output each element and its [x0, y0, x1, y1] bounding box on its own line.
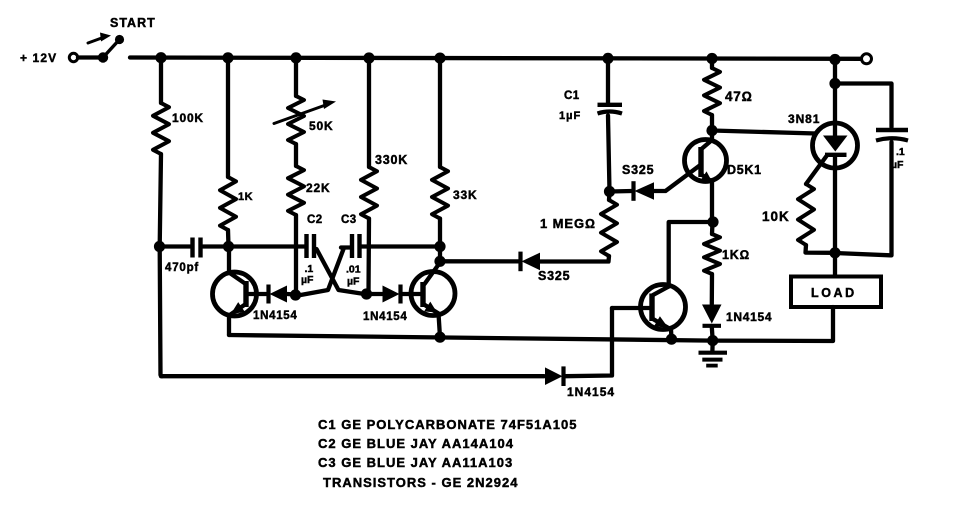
- svg-text:C1 GE POLYCARBONATE 74F51A105: C1 GE POLYCARBONATE 74F51A105: [318, 417, 577, 432]
- label START: [110, 16, 156, 30]
- SCR 3N81: [813, 123, 858, 168]
- label 1 MEG ohm: [540, 216, 596, 231]
- wire C1 to 1MEG node: [608, 116, 610, 192]
- wire rail to 33K: [438, 58, 442, 167]
- diode S325 (upper): [610, 181, 655, 201]
- wire J13 to .1uF cap: [835, 84, 892, 128]
- label 1N4154 (vertical diode): [726, 310, 772, 324]
- svg-text:47Ω: 47Ω: [725, 89, 753, 104]
- junction node J1 (100K / 470pF / down-wire): [154, 241, 165, 252]
- wire rail to 1K: [226, 58, 230, 177]
- wire top +12V supply rail: [130, 58, 861, 59]
- wire emitter rail Q1-Q2-Q3: [229, 335, 713, 341]
- junction node J8 (Q3 emitter): [666, 334, 677, 345]
- label S325 (lower): [538, 269, 570, 283]
- junction node J9 (ground node): [707, 335, 718, 346]
- wire 50K to 22K: [294, 144, 298, 166]
- svg-text:TRANSISTORS - GE 2N2924: TRANSISTORS - GE 2N2924: [323, 475, 518, 490]
- potentiometer 50K: [288, 96, 304, 144]
- svg-text:C2: C2: [307, 214, 323, 226]
- svg-text:330K: 330K: [375, 153, 408, 167]
- potentiometer arrow: [274, 100, 336, 124]
- svg-text:C3 GE BLUE JAY AA11A103: C3 GE BLUE JAY AA11A103: [318, 455, 513, 470]
- load box: [791, 277, 881, 308]
- label D5K1: [727, 163, 762, 177]
- resistor 33K: [432, 167, 448, 219]
- label 10K: [762, 209, 790, 224]
- transistor Q1 (2N2924): [213, 247, 257, 336]
- resistor 1K: [220, 177, 236, 230]
- label C2 value uF: [301, 274, 314, 286]
- wire SCR cathode to 10K: [806, 156, 827, 184]
- svg-text:22K: 22K: [306, 181, 330, 195]
- label 330K: [375, 153, 408, 167]
- switch START lever arm: [103, 40, 119, 58]
- svg-text:S325: S325: [538, 269, 570, 283]
- wire .1uF return to J14: [835, 142, 892, 255]
- wire S325 to D5K1 base: [654, 165, 701, 192]
- wire C3 left plate stub to cross-coupling: [341, 245, 351, 249]
- svg-text:1µF: 1µF: [559, 110, 581, 122]
- wire 1MEG bottom to S325 anode: [540, 256, 609, 262]
- note transistors: [323, 475, 518, 490]
- junction node D (330K branch): [363, 52, 374, 63]
- wire 33K to Q2 collector rail: [438, 219, 442, 247]
- terminal +12V input (open circle, left end): [69, 53, 77, 61]
- diode S325 (lower): [440, 252, 540, 272]
- svg-text:µF: µF: [301, 274, 314, 286]
- wire 1K to collector rail: [226, 230, 231, 247]
- transistor Q3 (2N2924): [641, 285, 686, 340]
- label 22K: [306, 181, 330, 195]
- terminal +12V output (open circle, right end): [862, 54, 872, 64]
- switch actuation arrow: [88, 33, 111, 44]
- wire J14 to LOAD: [833, 253, 837, 276]
- wire rail to C1: [606, 58, 610, 103]
- junction node J3 (33K / collector rail): [434, 241, 445, 252]
- junction node J13 (SCR anode / .1uF top): [829, 78, 840, 89]
- junction node J14 (SCR cathode / 10K / .1uF / LOAD): [829, 247, 840, 258]
- junction node C (50K branch): [290, 52, 301, 63]
- label 1N4154 (Q1 base diode): [253, 310, 297, 322]
- resistor 1MEG: [601, 200, 617, 256]
- junction node E (33K branch): [434, 53, 445, 64]
- resistor 47ohm: [704, 68, 720, 115]
- ground: [699, 341, 728, 366]
- svg-text:+ 12V: + 12V: [20, 51, 57, 65]
- resistor 1Kohm: [704, 234, 720, 274]
- svg-text:C1: C1: [564, 90, 580, 102]
- wire 330K down to Q2 base node (crosses collector rail): [366, 219, 371, 295]
- label 1K ohm: [722, 248, 750, 262]
- wire cross-coupling C3 left plate to Q1 base node: [297, 249, 344, 296]
- label C3: [341, 214, 357, 226]
- label LOAD: [811, 286, 857, 300]
- label C1 value: [559, 110, 581, 122]
- junction node J11 (47ohm / D5K1 collector / SCR gate): [706, 125, 717, 136]
- diode 1N4154 (vertical): [702, 305, 722, 326]
- wire J11 to SCR gate: [712, 131, 816, 134]
- diode 1N4154 (Q2 base): [367, 285, 424, 304]
- junction node J4 (Q2 collector / S325): [434, 256, 445, 267]
- junction node J12 (D5K1 emitter / 1K / Q3 collector): [707, 216, 718, 227]
- label C2 value .1: [305, 263, 314, 275]
- wire J3 to Q2 collector node: [438, 247, 442, 262]
- label 33K: [453, 188, 477, 202]
- wire diode to ground node: [710, 327, 715, 341]
- wire J12 to 1Kohm: [710, 222, 715, 234]
- label 100K: [172, 111, 204, 125]
- resistor 330K: [361, 167, 377, 219]
- svg-text:1N4154: 1N4154: [253, 310, 297, 322]
- wire bottom rail from J1 branch to diode: [161, 374, 544, 378]
- resistor 22K: [288, 166, 304, 215]
- junction node J5 (Q1 base): [290, 289, 301, 300]
- wire LOAD return to J9: [713, 307, 833, 341]
- diode 1N4154 (Q1 base): [246, 285, 296, 304]
- wire J1 to 470pF: [160, 244, 191, 248]
- svg-text:33K: 33K: [453, 188, 477, 202]
- label 470pf: [165, 262, 199, 274]
- svg-text:C2 GE BLUE JAY AA14A104: C2 GE BLUE JAY AA14A104: [318, 436, 514, 451]
- label .1 (right cap): [896, 146, 905, 158]
- note C3: [318, 455, 513, 470]
- wire diode to Q3 base riser: [565, 308, 612, 376]
- wire 10K to J14: [806, 245, 836, 253]
- wire rail to 330K: [367, 58, 371, 167]
- note C2: [318, 436, 514, 451]
- label C2: [307, 214, 323, 226]
- junction node J10 (C1 / 1MEG / S325): [604, 186, 615, 197]
- svg-text:1N4154: 1N4154: [363, 311, 407, 323]
- transistor Q2 (2N2924): [411, 263, 455, 338]
- svg-text:D5K1: D5K1: [727, 163, 762, 177]
- capacitor .1uF: [876, 130, 908, 141]
- svg-text:3N81: 3N81: [788, 112, 820, 126]
- note C1: [318, 417, 577, 432]
- svg-text:µF: µF: [347, 276, 360, 288]
- label 3N81: [788, 112, 820, 126]
- wire 470pF to J2: [203, 244, 229, 248]
- wire from +12V terminal to switch pole: [78, 55, 99, 59]
- label S325 (upper): [622, 163, 654, 177]
- junction node J6 (Q2 base): [361, 288, 372, 299]
- wire rail to SCR anode branch: [833, 59, 837, 137]
- wire J12 left to Q3 collector riser: [669, 222, 713, 287]
- svg-text:START: START: [110, 16, 156, 30]
- wire SCR cathode down to J14: [833, 157, 837, 253]
- capacitor 470pF: [193, 238, 201, 258]
- label 1N4154 (Q2 base diode): [363, 311, 407, 323]
- junction node B (1K branch): [222, 52, 233, 63]
- transistor D5K1: [685, 131, 727, 223]
- wire rail to 100K: [159, 58, 163, 103]
- junction node H (SCR anode branch): [829, 54, 840, 65]
- wire cross-coupling C2 right plate to Q2 base node: [317, 249, 367, 294]
- svg-text:470pf: 470pf: [165, 262, 199, 274]
- label 1K: [238, 191, 253, 203]
- wire Q3 base lead: [612, 306, 652, 310]
- label C3 value .01: [346, 264, 361, 276]
- label C1: [564, 90, 580, 102]
- resistor 100K: [153, 103, 169, 154]
- svg-text:C3: C3: [341, 214, 357, 226]
- capacitor C2: [307, 234, 315, 258]
- svg-text:100K: 100K: [172, 111, 204, 125]
- junction node A (100K branch): [155, 52, 166, 63]
- wire rail to 47ohm: [710, 58, 714, 68]
- svg-text:10K: 10K: [762, 209, 790, 224]
- wire 22K down to Q1 base node (crosses collector rail): [294, 215, 298, 296]
- junction node F (C1 branch): [602, 53, 613, 64]
- svg-text:1K: 1K: [238, 191, 253, 203]
- junction node J2 (1K / Q1 collector rail): [223, 241, 234, 252]
- svg-text:50K: 50K: [309, 119, 333, 133]
- label +12V: [20, 51, 57, 65]
- wire J1 down left side to bottom rail: [160, 247, 162, 377]
- svg-text:LOAD: LOAD: [811, 286, 857, 300]
- svg-text:1N4154: 1N4154: [567, 385, 615, 399]
- diode 1N4154 (bottom rail): [545, 366, 564, 386]
- junction node J7 (Q2 emitter): [434, 332, 445, 343]
- capacitor C1: [598, 105, 623, 114]
- svg-text:S325: S325: [622, 163, 654, 177]
- capacitor C3: [352, 234, 360, 258]
- junction node G (47ohm branch): [706, 53, 717, 64]
- label uF (right cap): [891, 159, 904, 171]
- svg-text:1KΩ: 1KΩ: [722, 248, 750, 262]
- switch lever tip: [115, 35, 124, 44]
- svg-text:1N4154: 1N4154: [726, 310, 772, 324]
- label 50K: [309, 119, 333, 133]
- wire C3 right plate to J3 (Q2 collector rail): [361, 244, 440, 248]
- wire 100K to 470pF node: [160, 154, 161, 247]
- label 47 ohm: [725, 89, 753, 104]
- wire 1MEG top stub: [607, 192, 612, 201]
- label C3 value uF: [347, 276, 360, 288]
- wire 1Kohm to diode: [710, 274, 715, 304]
- switch pole contact: [98, 52, 108, 62]
- wire J2 to capacitor C2 (Q1 collector rail): [229, 244, 305, 248]
- label 1N4154 (bottom diode): [567, 385, 615, 399]
- resistor 10K: [798, 184, 814, 245]
- svg-text:1 MEGΩ: 1 MEGΩ: [540, 216, 596, 231]
- svg-text:.01: .01: [346, 264, 361, 276]
- wire 47ohm to D5K1 collector node: [710, 115, 714, 131]
- wire rail to 50K: [294, 58, 298, 96]
- svg-text:.1: .1: [896, 146, 905, 158]
